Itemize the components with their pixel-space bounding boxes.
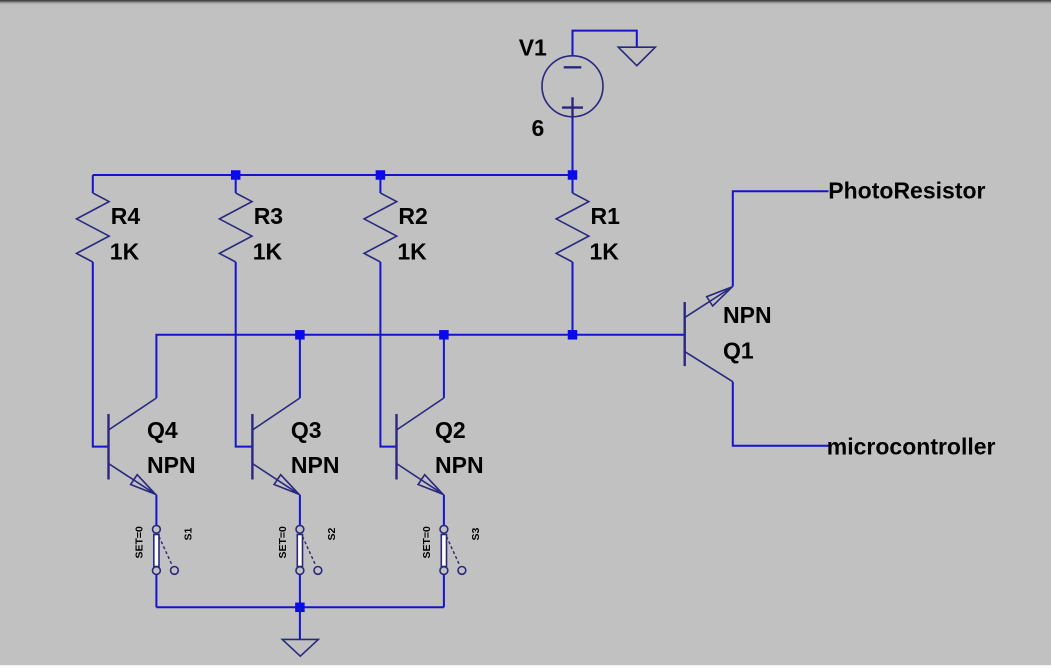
transistor Q3 (NPN) <box>252 398 300 495</box>
junction: bottom rail / ground <box>295 603 305 613</box>
resistor R3 <box>219 193 252 262</box>
svg-text:1K: 1K <box>253 238 283 264</box>
resistor R2 <box>364 193 397 262</box>
wire: R3 to base of Q3 <box>236 262 253 447</box>
wire: R2 to base of Q2 <box>380 262 396 447</box>
svg-text:SET=0: SET=0 <box>421 526 433 559</box>
svg-text:PhotoResistor: PhotoResistor <box>828 177 985 203</box>
svg-text:1K: 1K <box>397 238 427 264</box>
wire: R4 to base of Q4 <box>93 262 109 447</box>
junction: top rail / R2 <box>376 170 386 180</box>
svg-text:Q4: Q4 <box>147 417 178 443</box>
wire: top rail to R4 <box>92 175 94 193</box>
wire: top rail (V+ net) <box>93 174 573 176</box>
svg-text:R3: R3 <box>254 203 283 229</box>
wire: bottom rail to ground <box>299 607 301 639</box>
junction: middle rail / Q2 collector <box>439 330 449 340</box>
junction: top rail / V1-R1 <box>568 170 578 180</box>
wire: top rail to R2 <box>379 175 381 193</box>
svg-text:1K: 1K <box>110 238 140 264</box>
ground symbol (top, at V1 negative) <box>618 47 655 65</box>
transistor Q2 (NPN) <box>397 398 444 495</box>
wire: R1 to middle rail <box>572 262 574 335</box>
wire: Q1 collector down to microcontroller node <box>733 382 829 446</box>
svg-text:NPN: NPN <box>147 452 196 478</box>
svg-text:SET=0: SET=0 <box>277 526 289 559</box>
wire: top rail to R1 <box>572 175 574 193</box>
svg-text:1K: 1K <box>590 238 620 264</box>
resistor R4 <box>77 193 110 262</box>
svg-text:NPN: NPN <box>723 302 772 328</box>
junction: top rail / R3 <box>231 170 241 180</box>
svg-text:Q2: Q2 <box>435 417 466 443</box>
wire: middle rail (collector/base net to Q1) <box>156 335 684 398</box>
wire: Q2 collector to middle rail <box>443 335 445 398</box>
wire: V1 negative terminal up and right to top ground <box>573 31 637 56</box>
wire: emitter to switch S3 <box>443 495 445 525</box>
svg-text:6: 6 <box>532 115 545 141</box>
voltage source V1 <box>542 56 603 118</box>
junction: middle rail / Q3 collector <box>295 330 305 340</box>
ground symbol (bottom) <box>282 639 318 656</box>
wire: switch S2 to bottom rail <box>299 575 301 608</box>
wire: switch S1 to bottom rail <box>155 575 157 608</box>
junction: middle rail / R1 <box>568 330 578 340</box>
wire: top rail to R3 <box>235 175 237 193</box>
wire: switch S3 to bottom rail <box>443 575 445 608</box>
svg-text:V1: V1 <box>519 35 547 61</box>
wire: Q1 emitter up to PhotoResistor node <box>733 191 829 286</box>
wire: bottom rail (switch common net) <box>156 606 444 608</box>
wire: emitter to switch S2 <box>299 495 301 525</box>
svg-text:R2: R2 <box>398 203 427 229</box>
switch S3 (SPST, SET=0) <box>440 525 466 574</box>
wire: Q3 collector to middle rail <box>299 335 301 398</box>
svg-text:R1: R1 <box>591 203 621 229</box>
svg-text:S1: S1 <box>182 527 194 540</box>
transistor Q4 (NPN) <box>109 398 157 495</box>
wire: V1 positive terminal down to top rail <box>572 117 574 175</box>
svg-text:SET=0: SET=0 <box>133 526 145 559</box>
switch S1 (SPST, SET=0) <box>153 525 179 574</box>
svg-text:S2: S2 <box>326 527 338 540</box>
transistor Q1 (NPN, right) <box>685 287 733 382</box>
svg-text:NPN: NPN <box>435 452 484 478</box>
svg-text:microcontroller: microcontroller <box>827 434 996 460</box>
svg-text:NPN: NPN <box>291 452 340 478</box>
resistor R1 <box>556 193 589 262</box>
wire: emitter to switch S1 <box>155 495 157 525</box>
svg-text:Q3: Q3 <box>291 417 322 443</box>
svg-text:S3: S3 <box>470 527 482 540</box>
svg-text:R4: R4 <box>111 203 141 229</box>
switch S2 (SPST, SET=0) <box>296 525 322 574</box>
svg-text:Q1: Q1 <box>723 337 754 363</box>
